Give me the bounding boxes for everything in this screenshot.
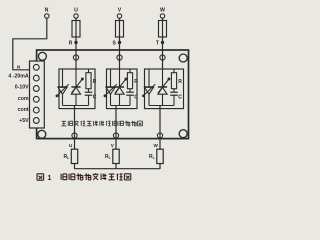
svg-text:U: U: [74, 8, 78, 14]
svg-text:R: R: [69, 41, 73, 47]
svg-text:C: C: [93, 95, 97, 101]
svg-text:4 -20mA: 4 -20mA: [8, 73, 28, 79]
svg-text:W: W: [160, 8, 165, 14]
svg-text:1: 1: [48, 175, 52, 182]
svg-text:cont: cont: [18, 107, 29, 113]
svg-text:C: C: [178, 95, 182, 101]
svg-text:C: C: [134, 95, 138, 101]
svg-text:N: N: [45, 8, 49, 14]
svg-text:com: com: [18, 96, 29, 102]
svg-text:R: R: [93, 79, 97, 85]
svg-text:T: T: [156, 41, 159, 47]
svg-text:V: V: [118, 8, 122, 14]
svg-text:R: R: [134, 79, 138, 85]
svg-text:R: R: [178, 79, 182, 85]
svg-text:W: W: [153, 143, 158, 148]
svg-text:0-10V: 0-10V: [15, 85, 29, 91]
svg-text:+5V: +5V: [19, 118, 29, 124]
